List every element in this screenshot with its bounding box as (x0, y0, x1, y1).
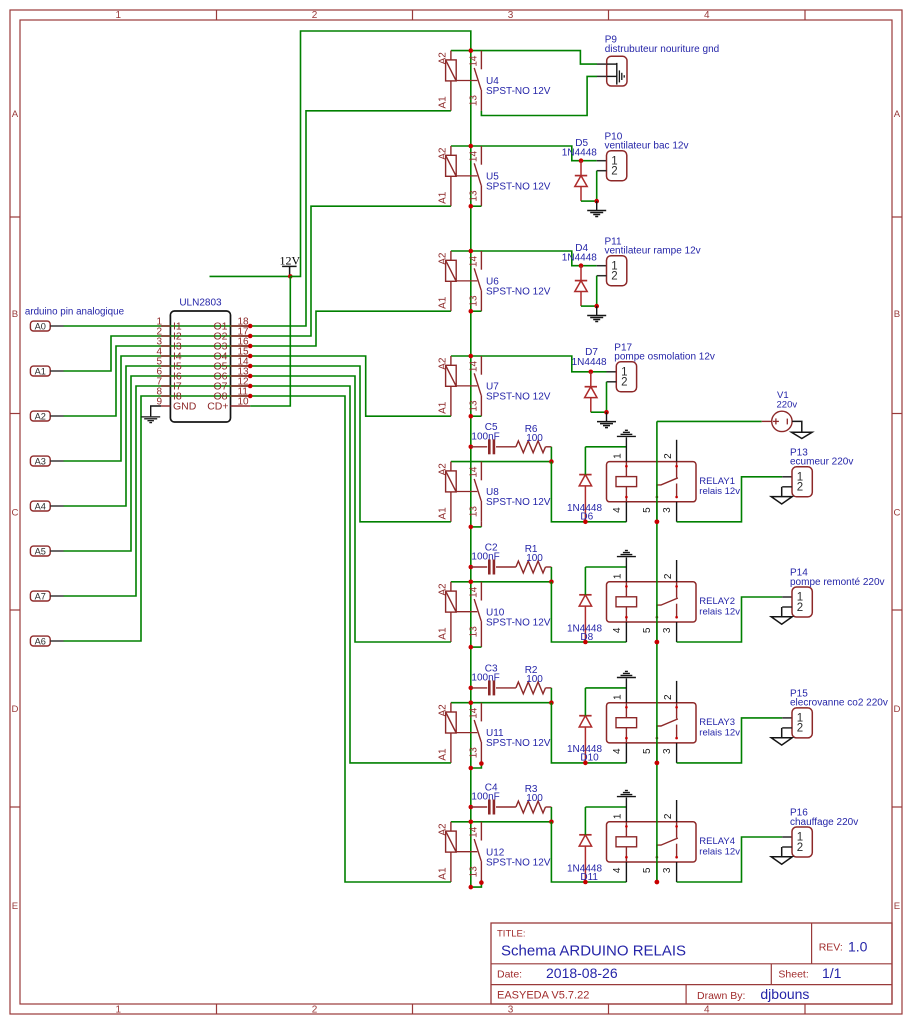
junction at ULN pin (248, 374, 253, 379)
relay U12 link (456, 851, 477, 853)
wire ULN pin 9 to ground (151, 406, 161, 416)
svg-text:4: 4 (612, 507, 623, 513)
relay U5 link (456, 175, 477, 177)
svg-text:5: 5 (642, 507, 653, 513)
connector P10 body (607, 151, 627, 181)
relay RELAY1 pin 3 lead (676, 502, 678, 522)
capacitor C2 100nF (471, 566, 487, 568)
svg-text:13: 13 (469, 626, 480, 638)
svg-text:13: 13 (469, 95, 480, 107)
svg-text:2: 2 (797, 482, 803, 494)
wire U6 pin 13 stub to rail (471, 310, 482, 312)
wire U10 A1 to ULN (250, 376, 451, 642)
junction at ULN pin (248, 394, 253, 399)
svg-text:1: 1 (116, 10, 122, 21)
relay U4 blade (474, 68, 481, 90)
relay RELAY2 contact pin 3 (676, 604, 678, 618)
wire U5 pin 13 stub to rail (471, 205, 482, 207)
svg-text:pompe osmolation 12v: pompe osmolation 12v (614, 352, 715, 363)
svg-text:A6: A6 (35, 636, 46, 646)
junction rail at U10 bottom (469, 645, 474, 650)
junction relay pin 5 on V1 rail (655, 761, 660, 766)
svg-text:4: 4 (612, 627, 623, 633)
svg-text:SPST-NO 12V: SPST-NO 12V (486, 857, 551, 868)
svg-text:SPST-NO 12V: SPST-NO 12V (486, 617, 551, 628)
svg-text:14: 14 (469, 361, 480, 373)
ground above relay RELAY2 pin 1 (617, 556, 636, 558)
svg-text:1/1: 1/1 (822, 965, 842, 981)
svg-text:2018-08-26: 2018-08-26 (546, 965, 618, 981)
svg-text:REV:: REV: (819, 942, 843, 954)
svg-text:A5: A5 (35, 546, 46, 556)
wire 12V to top rail (290, 31, 471, 276)
relay RELAY3 contact pin 2 (676, 703, 678, 719)
svg-text:A: A (894, 109, 901, 120)
relay RELAY3 coil (625, 703, 627, 718)
wire ULN pin 15 to U7 A1 (250, 356, 451, 416)
relay U8 link (456, 491, 477, 493)
connector P15 body (792, 708, 812, 738)
wire U7 pin 13 stub to rail (471, 415, 482, 417)
ground above relay RELAY1 pin 1 (617, 435, 636, 437)
svg-text:A7: A7 (35, 591, 46, 601)
svg-text:1N4448: 1N4448 (572, 357, 607, 368)
wire relay RELAY4 pin 3 to P16 pin 1 (677, 837, 783, 882)
svg-text:A0: A0 (35, 321, 46, 331)
relay U7 link (456, 385, 477, 387)
ULN2803 pin 4 lead (161, 355, 170, 357)
wire relay RELAY3 pin 3 to P15 pin 1 (677, 718, 783, 763)
relay U4 switch pin 13 (480, 90, 482, 111)
junction relay RELAY2 pin 5 on V1 rail (655, 640, 660, 645)
relay RELAY1 pin 4 lead (625, 502, 627, 522)
junction snubber to switch node (549, 459, 554, 464)
wire U7 A2/14 to P17 pin 1 (451, 356, 591, 372)
wire switch node down to bottom row (551, 703, 626, 763)
relay RELAY2 contact pin 2 (676, 582, 678, 598)
wire A4 to ULN row y=366 (64, 366, 251, 506)
resistor R2 100 (516, 682, 546, 694)
wire diode top to connector pin 1 (581, 160, 597, 162)
svg-text:relais 12v: relais 12v (699, 846, 740, 857)
junction U12 pin 13 tip (479, 880, 484, 885)
svg-text:SPST-NO 12V: SPST-NO 12V (486, 287, 551, 298)
wire U4 A1 to ULN pin 18 (250, 111, 451, 326)
connector P17 body (616, 362, 636, 392)
junction diode D8 bottom (583, 640, 588, 645)
diode D4 1N4448 (580, 266, 582, 281)
svg-text:D8: D8 (580, 632, 593, 643)
wire diode top to connector pin 1 (591, 371, 607, 373)
svg-text:A2: A2 (438, 704, 449, 717)
svg-text:chauffage 220v: chauffage 220v (790, 817, 858, 828)
junction rail at C5 (469, 445, 474, 450)
relay U11 coil (450, 703, 452, 712)
V1 lead (762, 420, 772, 422)
relay RELAY3 pin 5 lead (656, 743, 658, 763)
junction ground node P10 (594, 199, 599, 204)
relay RELAY1 contact pin 3 (676, 484, 678, 498)
net flag A5 (30, 546, 50, 556)
junction relay pin 5 on V1 rail (655, 640, 660, 645)
relay RELAY1 coil (625, 462, 627, 477)
wire diode D10 top to relay pin 1 stub (585, 687, 626, 689)
svg-text:arduino pin analogique: arduino pin analogique (25, 307, 125, 318)
svg-text:SPST-NO 12V: SPST-NO 12V (486, 738, 551, 749)
wire A6 to ULN row y=396 (64, 396, 251, 641)
wire diode D4 to ground node (581, 305, 597, 307)
relay U7 switch pin 13 (480, 395, 482, 416)
relay U10 coil (450, 582, 452, 591)
relay U8 pin 13 lead extension (480, 522, 482, 527)
svg-text:1N4448: 1N4448 (562, 147, 597, 158)
relay RELAY2 pin 5 lead (656, 622, 658, 642)
wire R6 output down (550, 447, 552, 462)
junction snubber to switch node (549, 700, 554, 705)
ground above relay RELAY4 pin 1 (617, 796, 636, 798)
relay U11 switch pin 14 (480, 703, 482, 722)
relay RELAY1 contact pin 2 (676, 462, 678, 478)
ULN2803 pin 17 lead (231, 335, 251, 337)
junction at ULN pin 15 (248, 354, 253, 359)
svg-text:Schema ARDUINO RELAIS: Schema ARDUINO RELAIS (501, 943, 686, 960)
wire U4 pin 13 to P9 pin 2 (481, 76, 597, 115)
ground at P13 (771, 497, 792, 504)
svg-text:A1: A1 (438, 507, 449, 520)
wire A0 to ULN pin 1 / O1 row (64, 325, 251, 327)
connector P13 body (792, 467, 812, 497)
svg-text:2: 2 (611, 271, 617, 283)
svg-text:1: 1 (613, 694, 624, 700)
junction relay pin 5 on V1 rail (655, 880, 660, 885)
wire U8 A1 to ULN (250, 366, 451, 522)
relay U5 switch pin 13 (480, 185, 482, 206)
wire diode D8 top to relay pin 1 stub (585, 566, 626, 568)
junction diode D7 top (589, 370, 594, 375)
svg-text:D: D (894, 704, 901, 715)
ULN2803 pin 14 lead (231, 365, 251, 367)
junction diode D4 top (579, 263, 584, 268)
svg-text:1: 1 (613, 453, 624, 459)
svg-text:B: B (894, 309, 900, 320)
wire U11 A2/14 row (451, 702, 552, 704)
wire V1 to ground (792, 421, 802, 432)
svg-text:A1: A1 (438, 96, 449, 109)
svg-text:2: 2 (663, 694, 674, 700)
junction diode D10 bottom (583, 761, 588, 766)
junction at ULN pin (248, 384, 253, 389)
wire R2 output down (550, 688, 552, 703)
svg-text:EASYEDA V5.7.22: EASYEDA V5.7.22 (497, 990, 589, 1002)
junction ground node P11 (594, 304, 599, 309)
relay U5 blade (474, 163, 481, 185)
svg-text:13: 13 (469, 400, 480, 412)
svg-text:2: 2 (797, 842, 803, 854)
junction diode D6 bottom (583, 520, 588, 525)
relay U12 blade (474, 839, 481, 861)
svg-text:A1: A1 (438, 748, 449, 761)
svg-text:5: 5 (642, 867, 653, 873)
svg-text:ecumeur 220v: ecumeur 220v (790, 457, 853, 468)
relay RELAY1 blade pin 5 (657, 478, 678, 497)
svg-text:SPST-NO 12V: SPST-NO 12V (486, 182, 551, 193)
relay U7 switch pin 14 (480, 356, 482, 375)
relay RELAY2 blade pin 5 (657, 598, 678, 617)
junction at ULN pin (248, 364, 253, 369)
svg-text:ULN2803: ULN2803 (179, 298, 222, 309)
svg-text:D: D (12, 704, 19, 715)
svg-text:SPST-NO 12V: SPST-NO 12V (486, 392, 551, 403)
relay RELAY1 pin 2 lead (676, 440, 678, 462)
ground at P14 (771, 617, 792, 624)
svg-text:TITLE:: TITLE: (497, 928, 526, 939)
ULN2803 pin 7 lead (161, 385, 170, 387)
wire 12V down to CD+ (250, 276, 290, 406)
svg-text:1: 1 (613, 813, 624, 819)
svg-text:100: 100 (526, 674, 543, 685)
ground at ULN pin 9 (141, 416, 160, 418)
svg-text:100nF: 100nF (471, 792, 499, 803)
ULN2803 pin 2 lead (161, 335, 170, 337)
relay RELAY3 pin 1 lead (625, 678, 627, 702)
wire relay RELAY2 pin 3 to P14 pin 1 (677, 597, 783, 642)
svg-text:13: 13 (469, 866, 480, 878)
relay RELAY4 pin 3 lead (676, 862, 678, 882)
svg-text:2: 2 (611, 166, 617, 178)
relay RELAY1 pin 5 lead (656, 502, 658, 522)
svg-text:14: 14 (469, 55, 480, 67)
junction relay RELAY1 pin 5 on V1 rail (655, 520, 660, 525)
relay U12 switch pin 14 (480, 822, 482, 841)
svg-text:13: 13 (469, 747, 480, 759)
svg-text:A: A (12, 109, 19, 120)
net flag A1 (30, 366, 50, 376)
junction snubber to switch node (549, 580, 554, 585)
wire diode top to connector pin 1 (581, 265, 597, 267)
svg-text:4: 4 (704, 10, 710, 21)
relay U4 switch pin 14 (480, 51, 482, 70)
wire U12 A1 to ULN (250, 396, 451, 882)
svg-text:13: 13 (469, 295, 480, 307)
relay RELAY2 pin 1 lead (625, 558, 627, 582)
relay RELAY2 pin 3 lead (676, 622, 678, 642)
svg-text:A2: A2 (438, 252, 449, 265)
svg-text:2: 2 (663, 813, 674, 819)
title block (491, 923, 892, 1004)
junction snubber to switch node (549, 820, 554, 825)
wire P10 pin 2 down (597, 170, 607, 172)
wire diode D6 top to relay pin 1 stub (585, 446, 626, 448)
svg-text:Date:: Date: (497, 969, 522, 981)
wire U11 A1 to ULN (250, 386, 451, 763)
svg-text:CD+: CD+ (207, 401, 228, 413)
svg-text:elecrovanne co2 220v: elecrovanne co2 220v (790, 698, 888, 709)
relay RELAY3 pin 4 lead (625, 743, 627, 763)
svg-text:14: 14 (469, 707, 480, 719)
relay U11 blade (474, 720, 481, 742)
svg-text:1: 1 (613, 573, 624, 579)
ULN2803 pin 12 lead (231, 385, 251, 387)
svg-text:A1: A1 (438, 867, 449, 880)
relay U12 coil (450, 822, 452, 831)
wire U6 A1 to ULN (250, 311, 451, 346)
net flag A0 (30, 321, 50, 331)
svg-text:14: 14 (469, 826, 480, 838)
junction rail at C4 (469, 805, 474, 810)
wire P16 pin 2 to ground (782, 846, 792, 848)
relay U7 blade (474, 373, 481, 395)
svg-text:pompe remonté 220v: pompe remonté 220v (790, 577, 885, 588)
wire A3 to ULN row y=356 (64, 356, 251, 461)
svg-text:3: 3 (662, 748, 673, 754)
svg-text:C: C (12, 507, 19, 518)
svg-text:2: 2 (797, 602, 803, 614)
wire switch node down to bottom row (551, 822, 626, 882)
wire U8 A2/14 row (451, 461, 552, 463)
svg-text:D6: D6 (580, 512, 593, 523)
svg-text:3: 3 (662, 867, 673, 873)
svg-text:relais 12v: relais 12v (699, 486, 740, 497)
resistor R1 100 (516, 561, 546, 573)
relay U12 switch pin 13 (480, 861, 482, 882)
svg-text:220v: 220v (777, 400, 798, 411)
svg-text:1N4448: 1N4448 (562, 252, 597, 263)
svg-text:A1: A1 (438, 401, 449, 414)
ULN2803 pin 8 lead (161, 395, 170, 397)
svg-text:A2: A2 (35, 411, 46, 421)
svg-text:4: 4 (612, 748, 623, 754)
svg-text:100nF: 100nF (471, 552, 499, 563)
wire A7 to ULN row y=386 (64, 386, 251, 596)
junction rail at U8 bottom (469, 525, 474, 530)
ULN2803 pin 15 lead (231, 355, 251, 357)
wire 12V stub left (210, 275, 291, 277)
wire switch node down to bottom row (551, 582, 626, 642)
svg-text:relais 12v: relais 12v (699, 606, 740, 617)
IC U_ULN2803 body (170, 311, 230, 422)
wire U5 A2/14 to P10 pin 1 (451, 146, 581, 161)
svg-text:SPST-NO 12V: SPST-NO 12V (486, 86, 551, 97)
junction rail at U6 top (469, 249, 474, 254)
svg-text:100: 100 (526, 433, 543, 444)
ULN2803 pin 5 lead (161, 365, 170, 367)
junction rail at U5 bottom (469, 204, 474, 209)
svg-text:djbouns: djbouns (760, 986, 809, 1002)
wire A2 to ULN row y=346 (64, 346, 251, 416)
svg-text:3: 3 (508, 10, 514, 21)
ULN2803 pin 13 lead (231, 375, 251, 377)
relay RELAY1 body (607, 462, 697, 502)
svg-text:3: 3 (508, 1005, 514, 1016)
ULN2803 pin 9 lead (161, 405, 170, 407)
svg-text:2: 2 (621, 377, 627, 389)
relay U7 coil (450, 356, 452, 365)
relay U10 link (456, 611, 477, 613)
junction rail at U11 top (469, 700, 474, 705)
resistor R3 100 (516, 801, 546, 813)
diode D8 1N4448 (584, 606, 586, 642)
wire diode D5 to ground node (581, 200, 597, 202)
svg-text:4: 4 (612, 867, 623, 873)
svg-text:A4: A4 (35, 501, 46, 511)
ground at P16 (771, 857, 792, 864)
relay U8 switch pin 13 (480, 501, 482, 522)
wire P11 pin 2 down (597, 275, 607, 277)
relay U8 coil (450, 462, 452, 471)
svg-text:14: 14 (469, 256, 480, 268)
wire main vertical rail (470, 51, 472, 888)
capacitor C5 100nF (471, 446, 487, 448)
relay RELAY4 contact pin 3 (676, 844, 678, 858)
voltage source V1 220v (772, 411, 792, 431)
diode D10 1N4448 (584, 727, 586, 763)
svg-text:4: 4 (704, 1005, 710, 1016)
svg-text:E: E (12, 901, 18, 912)
junction rail at C2 (469, 565, 474, 570)
svg-text:100nF: 100nF (471, 431, 499, 442)
wire U5 A1 to ULN (250, 206, 451, 336)
svg-text:1: 1 (116, 1005, 122, 1016)
svg-text:10: 10 (238, 397, 250, 408)
relay RELAY3 blade pin 5 (657, 719, 678, 738)
wire U11 pin 13 jog to rail (471, 764, 482, 769)
svg-text:5: 5 (642, 748, 653, 754)
relay RELAY4 body (607, 822, 697, 862)
svg-text:E: E (894, 901, 900, 912)
relay RELAY2 pin 4 lead (625, 622, 627, 642)
relay RELAY4 pin 4 lead (625, 862, 627, 882)
relay U5 coil (450, 146, 452, 155)
relay U8 switch pin 14 (480, 462, 482, 481)
relay U6 coil (450, 251, 452, 260)
ULN2803 pin 3 lead (161, 345, 170, 347)
connector P9 body (607, 56, 627, 86)
svg-text:12V: 12V (279, 253, 300, 267)
connector P16 body (792, 827, 812, 857)
wire U8 pin 13 to rail (471, 526, 482, 528)
svg-text:2: 2 (312, 1005, 318, 1016)
junction rail at U7 top (469, 354, 474, 359)
relay U10 switch pin 14 (480, 582, 482, 601)
junction relay RELAY4 pin 5 on V1 rail (655, 880, 660, 885)
junction rail at U10 top (469, 580, 474, 585)
wire U10 pin 13 to rail (471, 646, 482, 648)
relay RELAY4 pin 1 lead (625, 798, 627, 822)
svg-text:1.0: 1.0 (848, 938, 868, 954)
wire diode D11 top to relay pin 1 stub (585, 806, 626, 808)
relay U11 switch pin 13 (480, 742, 482, 763)
ground at V1 (792, 432, 813, 438)
net flag A7 (30, 591, 50, 601)
svg-text:GND: GND (173, 401, 197, 413)
svg-text:ventilateur rampe 12v: ventilateur rampe 12v (605, 246, 701, 257)
svg-text:C: C (894, 507, 901, 518)
net flag A6 (30, 636, 50, 646)
connector P14 body (792, 587, 812, 617)
junction relay RELAY3 pin 5 on V1 rail (655, 761, 660, 766)
wire P13 pin 2 to ground (782, 486, 792, 488)
junction rail at U4 top (469, 48, 474, 53)
capacitor C4 100nF (471, 806, 487, 808)
svg-text:Drawn By:: Drawn By: (697, 990, 745, 1002)
ground at P11 (596, 306, 598, 315)
svg-text:100: 100 (526, 553, 543, 564)
ground above relay RELAY3 pin 1 (617, 677, 636, 679)
ground at P17 (606, 412, 608, 421)
relay RELAY2 body (607, 582, 697, 622)
svg-text:2: 2 (663, 453, 674, 459)
svg-text:100: 100 (526, 793, 543, 804)
